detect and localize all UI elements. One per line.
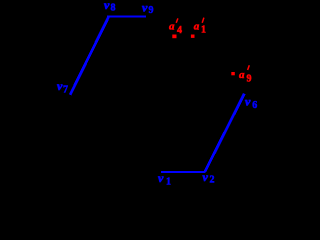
node label v8 xyxy=(104,0,116,14)
node label v9 xyxy=(142,1,154,17)
svg-text:8: 8 xyxy=(111,3,116,14)
wire v6-v2 xyxy=(205,94,245,172)
svg-text:9: 9 xyxy=(149,5,154,16)
svg-text:v: v xyxy=(158,171,164,185)
svg-text:v: v xyxy=(203,170,209,184)
node label v1 xyxy=(158,171,171,188)
prime of a'1 xyxy=(202,18,204,23)
point label a'4 xyxy=(169,21,182,37)
svg-text:v: v xyxy=(142,1,148,15)
svg-text:2: 2 xyxy=(210,175,215,186)
svg-text:4: 4 xyxy=(177,25,182,36)
point label a'9 xyxy=(239,69,252,85)
wire v7-v8 xyxy=(70,17,109,95)
prime of a'9 xyxy=(248,65,250,70)
svg-text:9: 9 xyxy=(247,74,252,85)
svg-text:a: a xyxy=(194,21,200,33)
node label v7 xyxy=(57,79,68,96)
svg-text:6: 6 xyxy=(252,100,257,111)
svg-text:v: v xyxy=(104,0,110,12)
wire v8-v9 xyxy=(107,16,146,18)
point a'1 dot xyxy=(191,35,195,38)
prime of a'4 xyxy=(176,18,178,22)
svg-text:a: a xyxy=(169,21,175,33)
wire v2-v1 xyxy=(161,171,205,173)
point a'9 dot xyxy=(231,72,235,75)
point label a'1 xyxy=(194,21,206,36)
svg-text:7: 7 xyxy=(63,85,68,96)
node label v2 xyxy=(203,170,215,186)
node label v6 xyxy=(245,95,257,112)
point a'4 dot xyxy=(172,35,176,39)
svg-text:v: v xyxy=(245,95,251,109)
svg-text:1: 1 xyxy=(166,177,171,188)
svg-text:a: a xyxy=(239,69,245,81)
svg-text:1: 1 xyxy=(201,25,206,36)
